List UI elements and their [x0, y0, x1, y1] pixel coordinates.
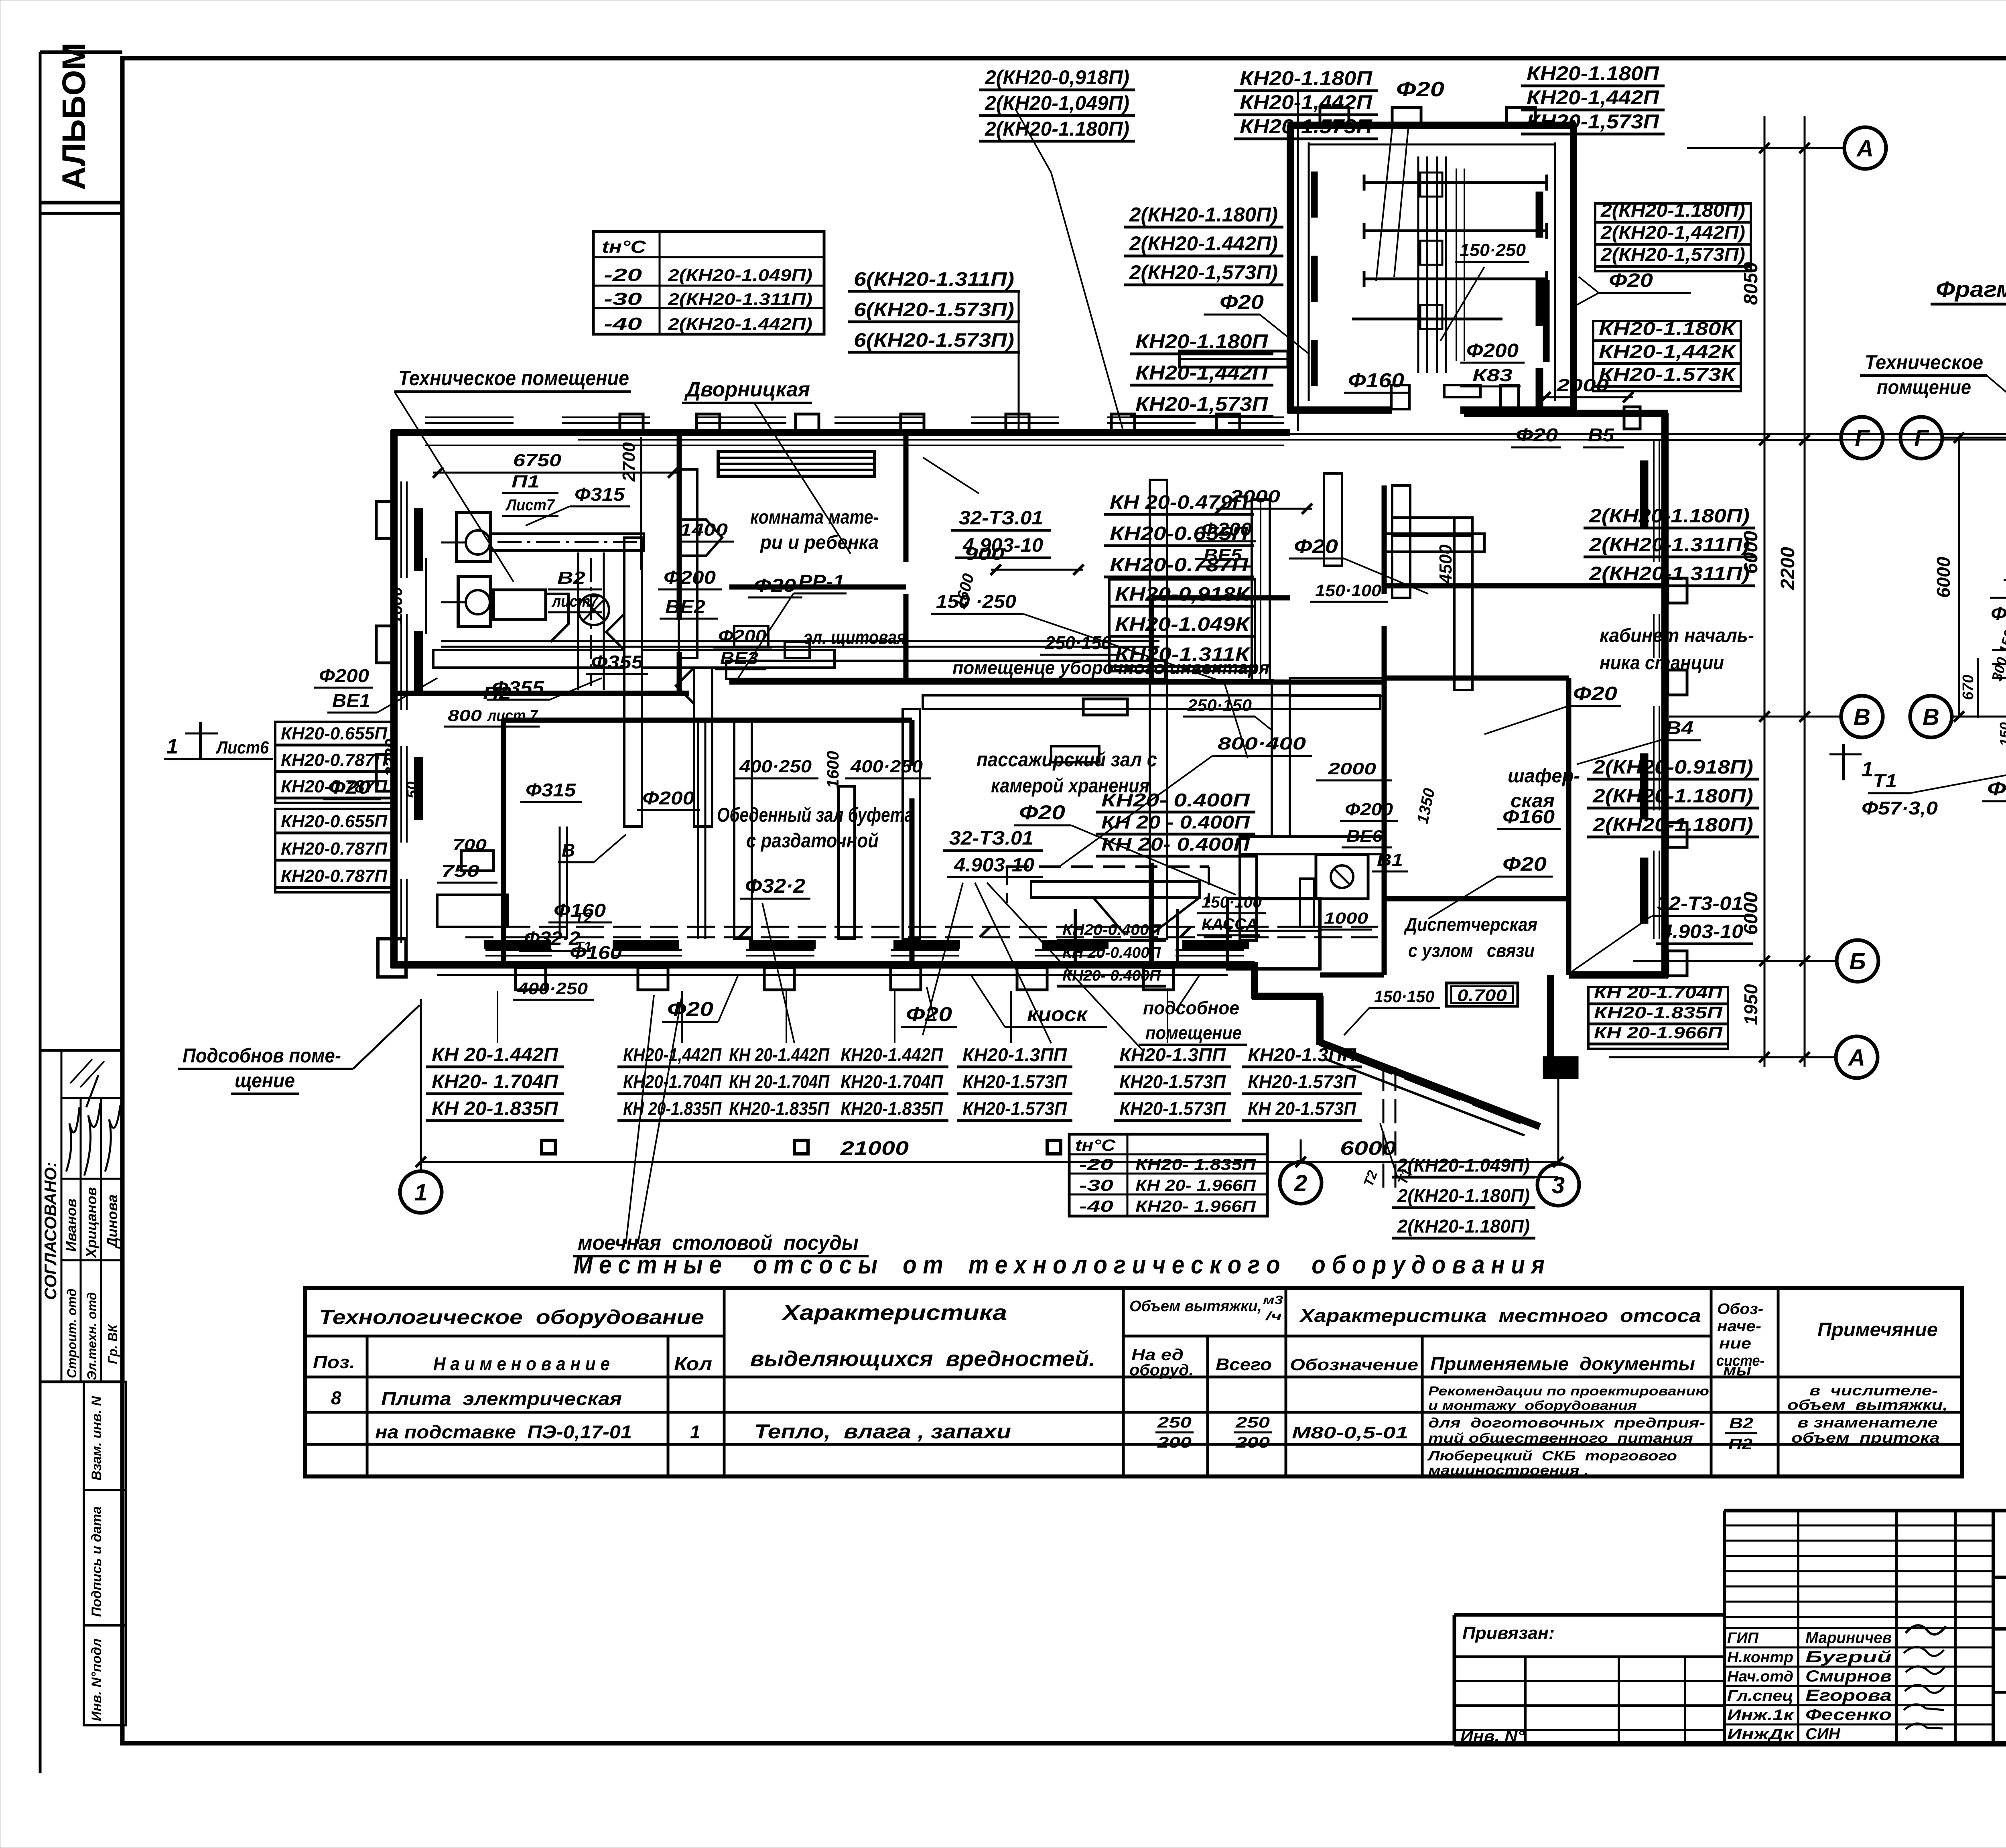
- duct drop near hall left: [903, 709, 920, 939]
- svg-text:КН20-0.655П: КН20-0.655П: [281, 812, 388, 831]
- dim 900: [964, 544, 1084, 575]
- fragment axis line G: [1942, 433, 2006, 443]
- svg-text:ние: ние: [1719, 1335, 1751, 1352]
- fragment axis V1: [1841, 696, 1883, 737]
- svg-text:Ф200: Ф200: [664, 567, 716, 588]
- svg-text:2(КН20-1.442П): 2(КН20-1.442П): [668, 315, 812, 333]
- svg-text:150: 150: [1997, 722, 2006, 746]
- svg-text:2(КН20-1.180П): 2(КН20-1.180П): [1589, 506, 1750, 527]
- label F160 b: [564, 942, 628, 965]
- svg-text:КН20-0.787П: КН20-0.787П: [281, 866, 388, 886]
- axis line G: [1606, 435, 1841, 445]
- label F355 b: [487, 677, 602, 700]
- title block outer: [1454, 1511, 2006, 1744]
- label F20 bottom a: [662, 975, 738, 1022]
- label passazhirsky zal: [977, 748, 1157, 797]
- duct drop hall right: [1150, 480, 1167, 939]
- label stack 2KN right of top room: [1595, 200, 1751, 271]
- dim 750: [437, 861, 497, 883]
- label F200 VE3: [713, 626, 772, 669]
- bottom-left wall foot: [378, 939, 406, 977]
- label F20 shafer: [1428, 854, 1553, 919]
- duct 250x150 corridor: [923, 695, 1380, 709]
- label stack above top room left: [1234, 67, 1378, 139]
- svg-text:Лист7: Лист7: [505, 496, 555, 514]
- label F315 dining: [520, 780, 582, 802]
- svg-text:Привязан:: Привязан:: [1462, 1623, 1555, 1643]
- svg-text:КН 20-1.442П: КН 20-1.442П: [729, 1044, 830, 1065]
- svg-text:1600: 1600: [823, 751, 842, 788]
- partition: dining room left: [501, 720, 506, 965]
- dim 2000 c: [1316, 759, 1392, 780]
- label shaferskaya: [1508, 766, 1580, 812]
- svg-text:-20: -20: [1079, 1156, 1113, 1174]
- svg-text:Инв. N°подл: Инв. N°подл: [89, 1639, 104, 1721]
- svg-text:ВЕ3: ВЕ3: [720, 648, 758, 668]
- label P1 list7: [502, 472, 558, 516]
- svg-text:Фесенко: Фесенко: [1805, 1706, 1892, 1724]
- label F160 shafer: [1497, 806, 1561, 829]
- heating mains T2/T1 dashed: [465, 910, 1378, 955]
- svg-text:2(КН20-1.180П): 2(КН20-1.180П): [1397, 1185, 1530, 1206]
- label 32-T3.01 mid: [943, 828, 1043, 877]
- wall pilasters top: [620, 414, 1240, 433]
- svg-text:Поз.: Поз.: [313, 1352, 355, 1372]
- svg-text:КН20-1,442К: КН20-1,442К: [1599, 341, 1736, 362]
- left margin approval block: [40, 1050, 123, 1382]
- label F200 dining: [637, 788, 700, 810]
- label F20 small: [748, 575, 802, 597]
- top room bottom fixtures: [1391, 385, 1519, 409]
- duct 400x250 corridor: [726, 661, 1165, 679]
- wall pilasters left: [376, 502, 394, 791]
- svg-text:2(КН20-1.180П): 2(КН20-1.180П): [985, 118, 1129, 140]
- svg-text:250: 250: [1235, 1414, 1270, 1431]
- radiators left wall: [415, 510, 422, 818]
- label podsobnoe pome bottom-left: [178, 1005, 420, 1094]
- svg-text:РР-1: РР-1: [798, 571, 845, 592]
- dining area extra ducts: [461, 720, 705, 939]
- svg-text:КН 20-1.966П: КН 20-1.966П: [1594, 1023, 1723, 1042]
- label stack KN0.400 upper: [1096, 790, 1255, 856]
- label F355 a: [586, 652, 648, 674]
- partition: corridor top wall: [729, 680, 1290, 685]
- svg-text:ВЕ2: ВЕ2: [665, 596, 705, 617]
- svg-text:выделяющихся вредностей.: выделяющихся вредностей.: [750, 1347, 1095, 1371]
- svg-text:помщение: помщение: [1877, 376, 1971, 398]
- partition: dvornitskaya right wall: [904, 433, 909, 562]
- diagonal wall bottom right: [1320, 1042, 1540, 1135]
- box 0.700 mark: [1446, 983, 1518, 1006]
- label V1: [1372, 850, 1408, 871]
- svg-text:150·150: 150·150: [1374, 987, 1434, 1006]
- svg-text:2(КН20-1,573П): 2(КН20-1,573П): [1129, 261, 1278, 284]
- bottom wall inner face line: [437, 974, 1228, 976]
- svg-text:tн°C: tн°C: [1075, 1137, 1116, 1154]
- label 150x100: [1310, 581, 1388, 602]
- partition: tech room right wall: [677, 433, 682, 620]
- svg-text:200: 200: [1157, 1434, 1192, 1451]
- duct vertical to dining: [694, 668, 712, 827]
- svg-text:Ф315: Ф315: [575, 484, 625, 505]
- svg-text:КН20-1.442П: КН20-1.442П: [841, 1044, 943, 1065]
- top wall inner face line: [425, 445, 1284, 446]
- svg-text:Ф355: Ф355: [591, 652, 644, 672]
- label V2 list7: [548, 568, 602, 612]
- svg-text:ИнжДк: ИнжДк: [1727, 1726, 1794, 1743]
- fragment axis G1: [1841, 417, 1883, 459]
- svg-text:КН 20- 1.966П: КН 20- 1.966П: [1135, 1177, 1256, 1194]
- svg-text:Тепло, влага , запахи: Тепло, влага , запахи: [754, 1420, 1011, 1443]
- svg-text:КН20-1.3ПП: КН20-1.3ПП: [1248, 1044, 1356, 1065]
- svg-text:КН20-1,573П: КН20-1,573П: [1527, 110, 1659, 133]
- svg-text:2(КН20-1.049П): 2(КН20-1.049П): [668, 266, 812, 284]
- fragment label F20 bottom: [1982, 750, 2006, 801]
- svg-text:400·250: 400·250: [517, 979, 588, 998]
- label stack KN 0.479: [1104, 492, 1254, 577]
- svg-text:КН 20-1.835П: КН 20-1.835П: [623, 1098, 722, 1119]
- svg-text:200: 200: [1235, 1434, 1270, 1451]
- axis circle 2 bottom: [1280, 1162, 1322, 1204]
- bottom stack 6: [1114, 1044, 1231, 1121]
- svg-text:1950: 1950: [1740, 984, 1761, 1025]
- label kiosk: [971, 975, 1107, 1027]
- misc equipment boxes: [437, 626, 1099, 927]
- bottom stack 3: [723, 1044, 835, 1121]
- svg-text:КН20-1,442П: КН20-1,442П: [1135, 361, 1268, 384]
- svg-text:Ф315: Ф315: [526, 780, 577, 800]
- svg-text:Ф200: Ф200: [718, 626, 767, 646]
- svg-text:наче-: наче-: [1717, 1318, 1761, 1335]
- svg-text:А: А: [1848, 1045, 1865, 1071]
- svg-text:-30: -30: [1079, 1177, 1113, 1194]
- axis line A2: [1609, 1052, 1836, 1062]
- svg-text:1400: 1400: [680, 520, 728, 540]
- svg-text:объем притока: объем притока: [1791, 1430, 1940, 1446]
- label F315 top: [526, 484, 630, 526]
- svg-text:Обоз-: Обоз-: [1717, 1301, 1763, 1318]
- svg-text:КН20-1.180П: КН20-1.180П: [1135, 330, 1268, 353]
- svg-text:2200: 2200: [1777, 547, 1799, 590]
- partition: hall top wall right: [1290, 680, 1384, 685]
- label tech room: [394, 367, 631, 582]
- right wing east pilasters: [1668, 578, 1687, 976]
- svg-text:А: А: [1856, 136, 1874, 162]
- svg-text:КН20-0.400П: КН20-0.400П: [1062, 922, 1161, 938]
- axis line B: [1633, 956, 1837, 966]
- svg-text:КН 20-1.442П: КН 20-1.442П: [432, 1044, 559, 1066]
- duct F315 horizontal tech room: [491, 534, 644, 550]
- svg-text:2: 2: [1294, 1170, 1307, 1196]
- svg-text:2(КН20-0.918П): 2(КН20-0.918П): [1592, 757, 1753, 778]
- label moechnaya: [573, 995, 869, 1256]
- svg-text:м3: м3: [1263, 1294, 1283, 1307]
- windows bottom wall: [485, 950, 1244, 956]
- svg-text:лист7: лист7: [551, 593, 599, 610]
- svg-text:Кол: Кол: [674, 1353, 712, 1374]
- svg-text:пассажирский зал с: пассажирский зал с: [977, 748, 1157, 771]
- svg-text:6000: 6000: [1933, 556, 1954, 598]
- svg-text:ника станции: ника станции: [1600, 652, 1724, 674]
- svg-text:Взам. инв. N: Взам. инв. N: [89, 1395, 104, 1480]
- svg-text:Характеристика: Характеристика: [781, 1301, 1007, 1325]
- svg-text:0.700: 0.700: [1457, 986, 1507, 1005]
- svg-text:-40: -40: [1079, 1198, 1113, 1215]
- svg-text:Дворницкая: Дворницкая: [684, 378, 810, 401]
- axis circle V: [1841, 696, 1883, 737]
- svg-text:помещенце уборочного инвентаря: помещенце уборочного инвентаря: [952, 657, 1269, 678]
- label stack above top room right: [1521, 62, 1665, 134]
- svg-text:на подставке ПЭ-0,17-01: на подставке ПЭ-0,17-01: [375, 1422, 632, 1442]
- svg-text:Люберецкий СКБ торгового: Люберецкий СКБ торгового: [1427, 1448, 1677, 1464]
- svg-text:2(КН20-1.311П): 2(КН20-1.311П): [668, 290, 812, 309]
- svg-text:-30: -30: [604, 289, 642, 309]
- svg-text:2700: 2700: [619, 442, 639, 482]
- top room exterior walls: [1287, 125, 1576, 413]
- label pomeschenie uborochnogo: [947, 657, 1274, 758]
- F20 label top room right: [1577, 270, 1691, 305]
- fragment label tech room: [1860, 351, 2006, 473]
- svg-text:Б: Б: [1849, 948, 1866, 975]
- top room inner wall lines: [1309, 142, 1555, 401]
- big table grid: [305, 1288, 1962, 1476]
- table tn top-left: [593, 232, 824, 334]
- svg-text:помещение: помещение: [1145, 1022, 1242, 1043]
- dim 1600 vertical: [387, 558, 426, 634]
- label stack 2KN 1.180 right: [1584, 506, 1755, 586]
- svg-text:КН20-1,573П: КН20-1,573П: [1135, 393, 1268, 415]
- svg-text:Н.контр: Н.контр: [1727, 1649, 1793, 1666]
- svg-text:К83: К83: [1472, 366, 1513, 385]
- svg-text:щение: щение: [235, 1069, 295, 1092]
- dim 6750: [433, 451, 678, 478]
- svg-text:Ф20: Ф20: [1987, 778, 2006, 800]
- svg-text:В1: В1: [1377, 850, 1403, 870]
- axis line A: [1687, 143, 1844, 153]
- svg-text:Динова: Динова: [104, 1194, 120, 1249]
- fragment axis G2: [1900, 417, 1942, 459]
- dining vertical duct: [734, 720, 752, 939]
- svg-text:КН20-0.787П: КН20-0.787П: [281, 839, 388, 859]
- svg-text:400·250: 400·250: [850, 757, 923, 776]
- svg-text:КАССА: КАССА: [1202, 916, 1258, 933]
- label PP-1: [738, 571, 847, 678]
- svg-text:Ф200: Ф200: [1466, 340, 1519, 361]
- svg-text:Ф160: Ф160: [554, 900, 606, 921]
- F20 label top room left: [1204, 291, 1308, 353]
- fragment label T2 F57: [1990, 575, 2006, 706]
- right wing top wall: [1464, 410, 1668, 417]
- bottom dimension line: [416, 1138, 1563, 1167]
- label F20 d: [1484, 683, 1621, 734]
- svg-text:КН 20-0.400П: КН 20-0.400П: [1062, 944, 1161, 961]
- svg-text:6000: 6000: [1740, 892, 1762, 935]
- partition: right rooms west wall: [1382, 485, 1387, 594]
- svg-text:Характеристика местного отсо: Характеристика местного отсоса: [1299, 1305, 1701, 1326]
- column markers bottom: [542, 1140, 1061, 1154]
- svg-text:-40: -40: [604, 314, 642, 334]
- svg-text:для доготовочных предприя-: для доготовочных предприя-: [1428, 1415, 1705, 1431]
- partition: el. shchitovaya walls: [1151, 598, 1290, 682]
- fragment top windows: [578, 434, 2006, 440]
- bottom stack 2: [617, 1044, 727, 1121]
- section mark 1 right: [1829, 744, 1873, 781]
- right wing east windows: [1654, 441, 1659, 939]
- partition: dvornitskaya bottom: [729, 585, 906, 590]
- svg-text:2000: 2000: [1556, 376, 1609, 395]
- svg-text:tн°C: tн°C: [602, 237, 646, 257]
- svg-text:Обеденный зал буфета: Обеденный зал буфета: [717, 804, 914, 826]
- svg-text:КН20-1.573П: КН20-1.573П: [1240, 115, 1373, 138]
- svg-text:6000: 6000: [1740, 531, 1762, 574]
- title block left part grid: [1454, 1623, 1724, 1745]
- svg-text:Ф200: Ф200: [1345, 800, 1393, 819]
- label B leader: [558, 835, 626, 862]
- label 250x150 b: [1183, 696, 1272, 730]
- axis circle 1 bottom: [400, 1171, 442, 1213]
- label stack KN inside-left: [1130, 330, 1273, 416]
- svg-text:Хрицанов: Хрицанов: [83, 1187, 99, 1259]
- fan unit P2: [441, 577, 569, 642]
- svg-text:КН20-1.573П: КН20-1.573П: [962, 1071, 1067, 1092]
- label 150x250 mid: [931, 591, 1224, 682]
- svg-text:8050: 8050: [1740, 262, 1762, 305]
- label F32x2 dining: [740, 875, 810, 1043]
- svg-text:КН20- 0.400П: КН20- 0.400П: [1101, 790, 1250, 810]
- label F32x2 left: [519, 928, 586, 951]
- svg-text:П2: П2: [1728, 1436, 1752, 1453]
- svg-text:КН20-0.655П: КН20-0.655П: [281, 724, 388, 743]
- svg-text:комната мате-: комната мате-: [750, 507, 879, 528]
- svg-text:Нач.отд: Нач.отд: [1727, 1668, 1793, 1685]
- svg-text:2(КН20-1.180П): 2(КН20-1.180П): [1592, 786, 1753, 807]
- label F20 left: [323, 777, 381, 799]
- svg-text:Н а и м е н о в а н и е: Н а и м е н о в а н и е: [433, 1353, 610, 1374]
- svg-text:1: 1: [690, 1422, 700, 1442]
- label obedenny zal: [717, 804, 914, 852]
- svg-text:Ф20: Ф20: [1502, 854, 1547, 875]
- label komnata materi: [750, 507, 879, 553]
- fan unit P1: [441, 512, 491, 561]
- svg-text:6750: 6750: [513, 451, 562, 470]
- bottom stack 4: [835, 1044, 948, 1121]
- right wing east wall: [1661, 413, 1669, 978]
- svg-text:СИН: СИН: [1805, 1725, 1841, 1743]
- svg-text:8: 8: [331, 1387, 341, 1408]
- svg-text:КН20-1.3ПП: КН20-1.3ПП: [1119, 1044, 1226, 1065]
- F200 K83 label: [1460, 340, 1525, 386]
- label 400x250 left: [513, 979, 594, 1000]
- svg-text:800: 800: [448, 707, 482, 725]
- svg-text:КН20-1,442П: КН20-1,442П: [1527, 86, 1659, 109]
- svg-text:4.903-10: 4.903-10: [1661, 921, 1743, 942]
- label P2 800 list7: [444, 683, 540, 727]
- label dispetcherskaya: [1403, 914, 1537, 961]
- svg-text:шафер-: шафер-: [1508, 766, 1580, 787]
- label stack KN0.400 lower: [1057, 922, 1166, 986]
- label F200 VE5: [1196, 519, 1256, 567]
- svg-text:1: 1: [166, 735, 178, 758]
- dim 1400: [677, 520, 734, 542]
- svg-text:В4: В4: [1665, 717, 1693, 738]
- ducts VE4 route: [1272, 534, 1484, 837]
- label stack 2KN left of top room: [1124, 203, 1283, 285]
- svg-text:ВЕ6: ВЕ6: [1346, 827, 1383, 845]
- ALBOM box top-left: [40, 43, 122, 213]
- svg-text:КН 20-0.479П: КН 20-0.479П: [1110, 492, 1249, 513]
- tech room pipe runs: [497, 542, 638, 690]
- svg-text:с узлом связи: с узлом связи: [1408, 940, 1535, 961]
- svg-text:Гр. ВК: Гр. ВК: [106, 1324, 120, 1364]
- label dvornitskaya: [682, 378, 851, 554]
- svg-text:машиностроения .: машиностроения .: [1428, 1463, 1589, 1478]
- zigzag ducts kabinet: [1324, 473, 1472, 690]
- svg-text:оборуд.: оборуд.: [1129, 1361, 1194, 1379]
- svg-text:КН20-1.704П: КН20-1.704П: [623, 1071, 722, 1092]
- main plan: bottom exterior wall: [391, 961, 1255, 969]
- svg-text:эл. щитовая: эл. щитовая: [804, 627, 906, 648]
- svg-text:объем вытяжки,: объем вытяжки,: [1787, 1397, 1948, 1413]
- svg-text:2000: 2000: [1230, 487, 1281, 506]
- partition: dispatcher room: [1320, 899, 1384, 975]
- duct elbows tech room: [606, 520, 722, 704]
- dim 2330 vertical: [382, 739, 400, 777]
- svg-text:Диспетчерская: Диспетчерская: [1403, 914, 1537, 935]
- label 32-T3-01 right stack: [1573, 893, 1753, 971]
- svg-text:750: 750: [441, 861, 479, 880]
- svg-text:КН20-1.573П: КН20-1.573П: [1119, 1098, 1226, 1119]
- main plan: long top wall: [682, 429, 1290, 436]
- label 150x150 a: [0, 0, 0, 0]
- vertical ducts VE5 area: [1252, 500, 1270, 680]
- svg-text:ГИП: ГИП: [1727, 1630, 1759, 1647]
- svg-text:2(КН20-1.180П): 2(КН20-1.180П): [1592, 814, 1753, 836]
- svg-text:кабинет началь-: кабинет началь-: [1600, 625, 1754, 646]
- partition right of kiosk: [1149, 863, 1154, 965]
- svg-text:1000: 1000: [1324, 910, 1368, 927]
- svg-text:150·100: 150·100: [1315, 581, 1381, 600]
- svg-text:Ф200: Ф200: [642, 788, 694, 808]
- fragment dim vertical: [1933, 438, 1959, 717]
- right wing top-step pilaster: [1624, 407, 1640, 429]
- right wing east radiators: [1641, 461, 1647, 923]
- svg-text:КН 20- 0.400П: КН 20- 0.400П: [1101, 834, 1250, 855]
- radiators bottom wall: [485, 941, 1248, 948]
- title block middle signature table: [1724, 1511, 1993, 1744]
- svg-text:Гл.спец: Гл.спец: [1727, 1688, 1793, 1704]
- svg-text:250·150: 250·150: [1045, 632, 1111, 653]
- svg-text:/ч: /ч: [1265, 1310, 1282, 1323]
- svg-text:П2: П2: [483, 683, 512, 703]
- svg-text:Ф20: Ф20: [1019, 801, 1065, 824]
- svg-text:1: 1: [414, 1180, 427, 1206]
- bottom stack 5: [957, 1044, 1072, 1121]
- svg-text:КН20-1.835П: КН20-1.835П: [729, 1098, 830, 1119]
- fragment title: [1931, 276, 2006, 304]
- svg-text:Ф20: Ф20: [667, 998, 713, 1020]
- south-east wall to diagonal: [1544, 975, 1668, 1078]
- svg-text:ри и ребенка: ри и ребенка: [759, 532, 879, 553]
- svg-text:4500: 4500: [1436, 544, 1456, 584]
- svg-text:КН 20 - 0.400П: КН 20 - 0.400П: [1101, 812, 1250, 833]
- top room pilasters: [1320, 108, 1535, 125]
- wall step left of diagonal: [1252, 962, 1323, 1045]
- duct band to top room: [1180, 351, 1288, 367]
- svg-text:1600: 1600: [387, 587, 406, 624]
- label B5: [1583, 424, 1624, 447]
- top room radiators: [1312, 173, 1549, 385]
- main plan: left exterior wall: [390, 430, 398, 968]
